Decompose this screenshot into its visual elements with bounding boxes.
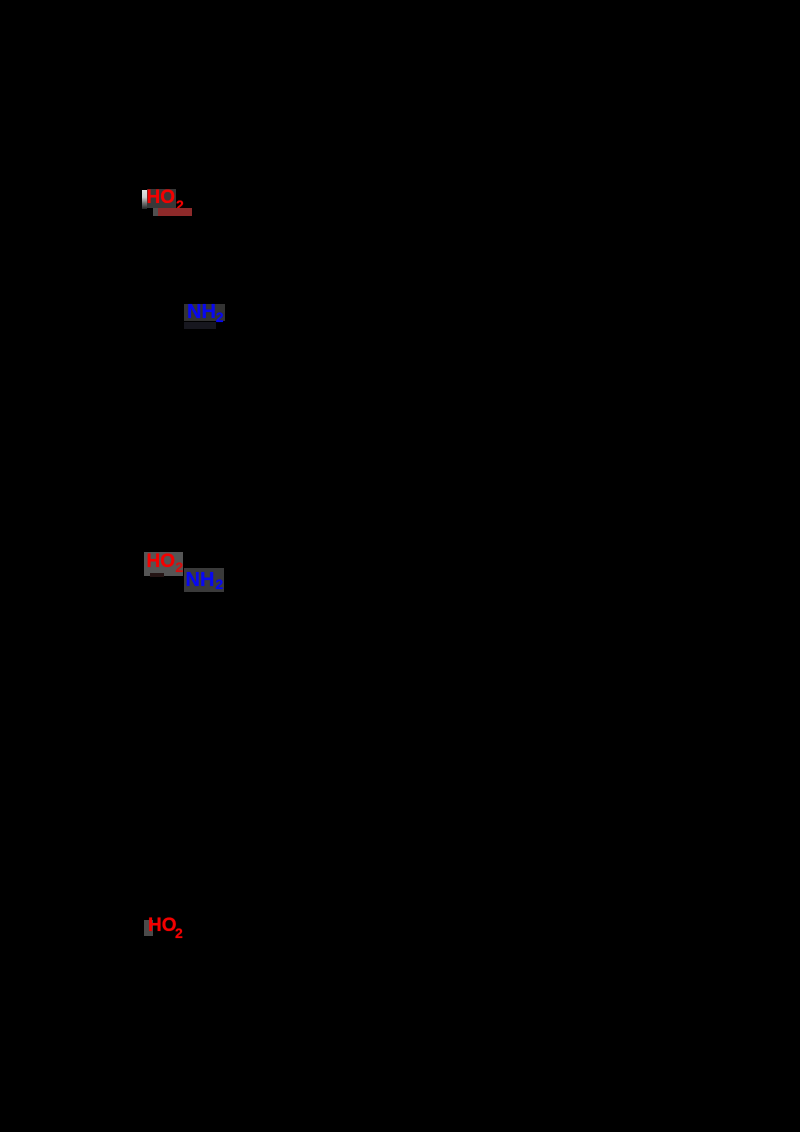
molecule 1: subscript 2 of NH2 <box>216 310 224 324</box>
molecule 2: dim shadow marks below HO <box>150 573 164 578</box>
molecule 1: small gray mask square under OH <box>153 208 161 216</box>
molecule 2: subscript 2 of NH2 <box>215 577 223 591</box>
molecule 1: hydroxyl label HO2 (red) <box>147 188 176 207</box>
molecule 2: hydroxyl label HO2 (red) <box>147 552 176 571</box>
molecule 1: amine label mask box <box>184 304 225 321</box>
molecule 1: subscript 2 of HO2 <box>176 198 184 212</box>
molecule 1: dim shadow marks below NH2 <box>184 322 216 329</box>
molecule 3: subscript 2 of HO2 <box>175 926 183 940</box>
molecule 3: label mask box behind HO <box>144 920 153 937</box>
molecule 2: amine label mask box <box>184 568 224 592</box>
molecule 1: offset shadow copy of HO label (dim red bar) <box>158 208 192 216</box>
molecule 3: hydroxyl label HO2 (red) <box>148 916 177 935</box>
molecule 2: amine label NH2 (blue) <box>186 570 215 590</box>
molecule 1: label mask box behind OH <box>142 190 148 209</box>
molecule 2: subscript 2 of HO2 <box>175 560 183 574</box>
molecule 1: amine label NH2 (blue) <box>187 302 216 322</box>
molecule 1: label mask box behind OH text <box>147 189 176 208</box>
molecule 2: label mask box behind HO <box>144 552 183 576</box>
